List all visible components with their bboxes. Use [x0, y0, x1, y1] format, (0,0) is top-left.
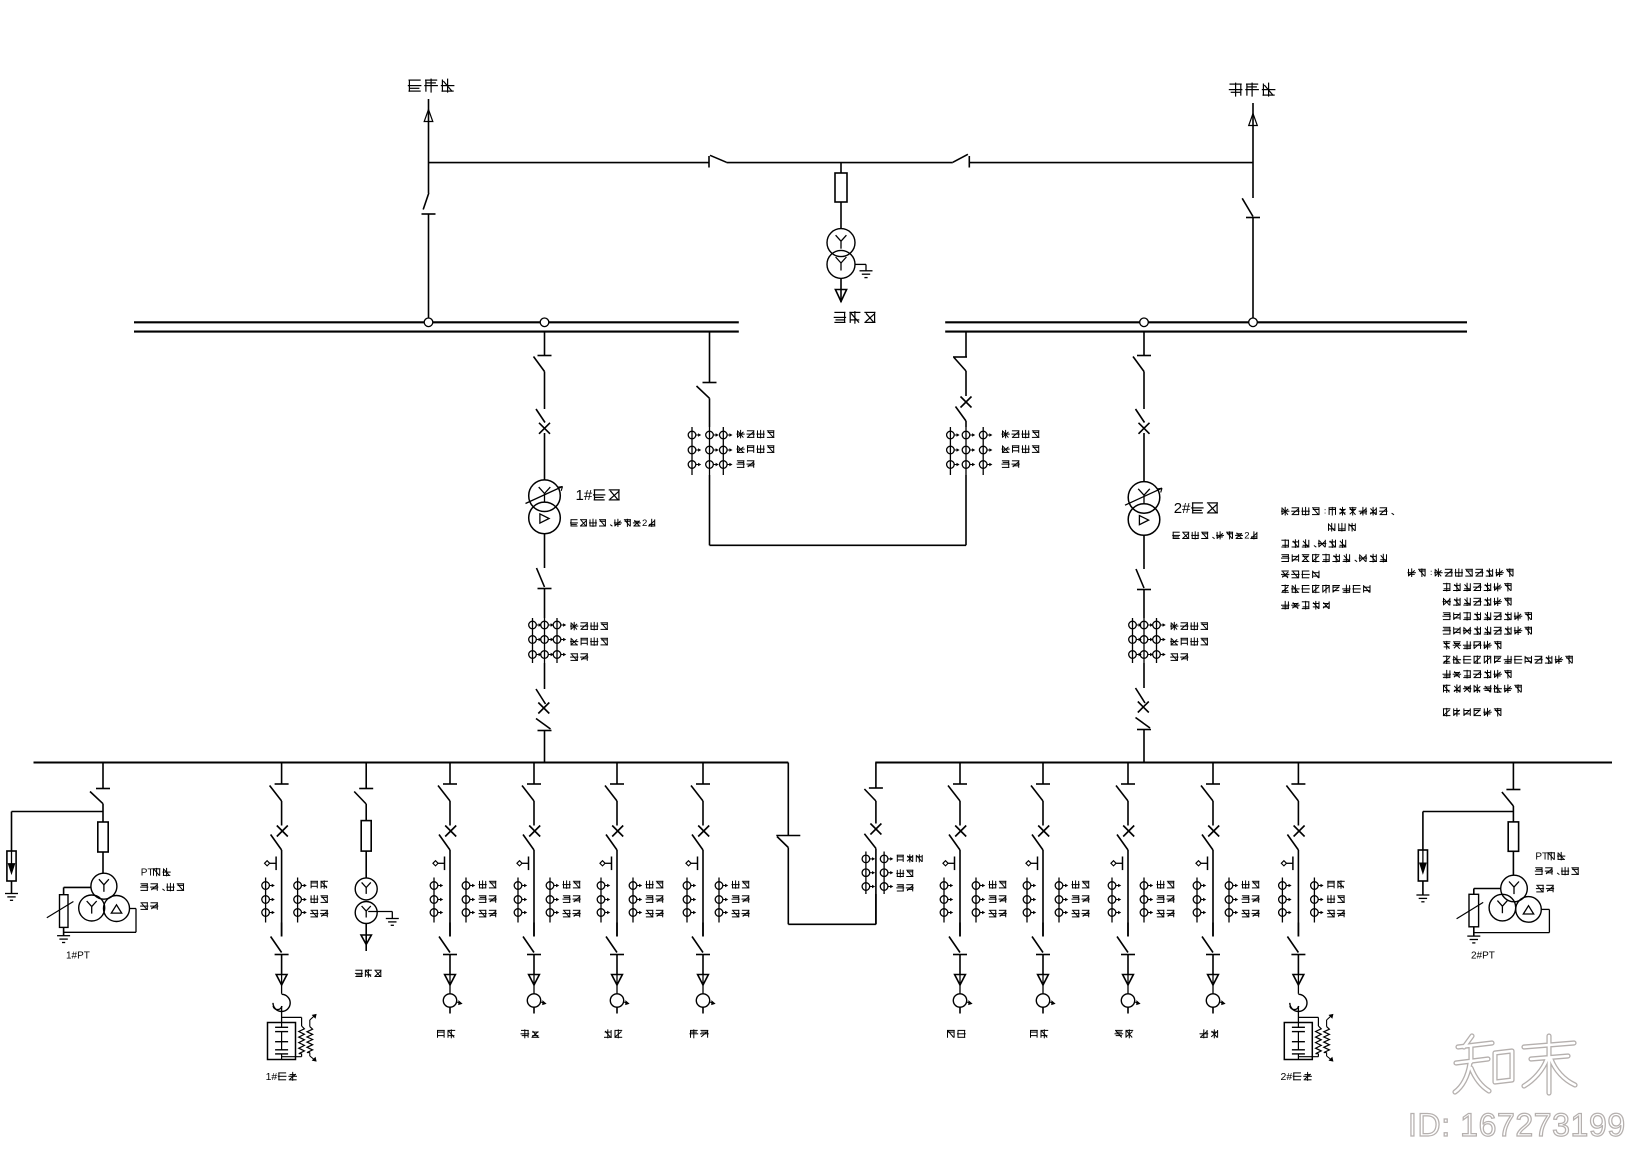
wire bus to feeder 3	[616, 763, 618, 785]
text protection note line 3	[1281, 539, 1346, 548]
handcart contact feeder 2	[517, 857, 529, 871]
capacitor bank box cap2	[1284, 1023, 1312, 1060]
CT group feeder cap2 column A	[1279, 878, 1291, 923]
ground arrester PT1	[5, 894, 18, 901]
wire feeder 8 a	[1212, 801, 1214, 826]
wire T1 f	[544, 731, 546, 763]
wire fuse to PT1	[102, 852, 104, 873]
wire feeder cap2 a	[1297, 801, 1299, 826]
label CT feeder 6 row2	[1072, 895, 1090, 902]
station transformer winding 2	[827, 250, 855, 278]
wire bridge left a	[709, 398, 711, 427]
CT group bridge-left column B	[706, 427, 718, 475]
wire feeder 8 e	[1212, 1007, 1214, 1013]
cable terminal feeder 1	[443, 994, 462, 1007]
wire bridge horizontal	[710, 544, 967, 546]
label CT feeder 8 row1	[1242, 880, 1260, 888]
CT group T1 column A	[529, 618, 541, 663]
wire feeder 3 d	[616, 955, 618, 975]
wire bus tie bottom	[788, 923, 876, 925]
label CT feeder 4 row3	[732, 910, 750, 917]
label feeder 2	[521, 1029, 540, 1038]
cable terminal feeder 8	[1206, 994, 1225, 1007]
handcart contact feeder 8	[1196, 857, 1208, 871]
label CT bridge-left row2	[737, 445, 775, 453]
label CT feeder 8 row3	[1242, 910, 1260, 917]
capacitor elements cap1	[275, 1023, 288, 1060]
label CT feeder cap2 row1	[1327, 880, 1344, 888]
node transformer 1 on bus I	[540, 318, 549, 327]
wire T1 d	[544, 589, 546, 619]
breaker feeder 3	[606, 826, 623, 851]
wire T2 e	[1143, 663, 1145, 688]
disconnector feeder 3 upper	[605, 784, 624, 801]
label CT bridge-right row3	[1002, 460, 1020, 467]
label CT feeder 5 row2	[989, 895, 1007, 902]
label feeder 4	[690, 1029, 709, 1038]
wire feeder 5 d	[959, 955, 961, 975]
label CT feeder 7 row1	[1157, 880, 1175, 888]
CT group feeder cap2 column B	[1311, 878, 1323, 923]
wire station tx2 neutral	[368, 912, 392, 919]
wire feeder 7 a	[1127, 801, 1129, 826]
incoming line 2 arrow	[1249, 103, 1258, 126]
CT group bus tie column A	[862, 852, 874, 895]
CT group feeder 4 column A	[683, 878, 695, 923]
ground station transformer	[860, 271, 873, 278]
arrester PT2 line side	[1418, 850, 1427, 881]
disconnector feeder 5 upper	[948, 784, 967, 801]
text PT2 note line3	[1536, 885, 1554, 892]
wire feeder 5 b	[959, 850, 961, 937]
plug contact feeder 2	[529, 975, 540, 994]
breaker bridge right	[956, 397, 972, 422]
wire bus I to disconnector T1	[544, 332, 546, 356]
node incoming 2 on bus II	[1249, 318, 1258, 327]
wire feeder 3 a	[616, 801, 618, 826]
wire station tx2 a	[365, 804, 367, 821]
wire top tie middle segment	[727, 162, 953, 164]
disconnector feeder 4 lower	[692, 937, 710, 955]
disconnector feeder 7 upper	[1116, 784, 1135, 801]
wire T2 a	[1143, 372, 1145, 410]
incoming line 1 arrow	[424, 99, 433, 122]
CT group feeder 3 column B	[629, 878, 641, 923]
label CT feeder 8 row2	[1242, 895, 1260, 902]
label capacitor bank 2	[1281, 1071, 1312, 1083]
label CT bus tie row2	[896, 869, 913, 877]
cable terminal feeder 4	[696, 994, 715, 1007]
disconnector station tx2	[354, 789, 373, 805]
CT group feeder cap1 column B	[294, 878, 306, 923]
wire bus to feeder 4	[702, 763, 704, 785]
wire feeder 1 b	[449, 850, 451, 937]
label CT feeder 1 row3	[479, 910, 497, 917]
label feeder 5	[947, 1030, 966, 1038]
wire feeder 1 c	[449, 923, 451, 937]
breaker feeder 7	[1117, 826, 1134, 851]
text signal note line 10	[1443, 708, 1502, 717]
wire capbank cap1 to box	[281, 1006, 283, 1023]
disconnector T1 high side	[534, 356, 552, 372]
transformer T1 winding HV	[526, 480, 563, 512]
plug contact feeder cap2	[1293, 975, 1304, 994]
wire T2 f	[1143, 730, 1145, 763]
ground station tx2	[386, 919, 399, 926]
label CT T2 row1	[1170, 622, 1208, 630]
disconnector bus tie right	[864, 788, 883, 801]
ground PT1	[57, 936, 70, 943]
label CT bridge-right row1	[1002, 430, 1040, 438]
wire feeder 6 d	[1042, 955, 1044, 975]
PT1 winding bottom-right	[104, 896, 130, 922]
CT group T2 column C	[1153, 618, 1165, 663]
CT group feeder 6 column B	[1055, 878, 1067, 923]
label CT bridge-right row2	[1002, 445, 1040, 453]
capacitor elements cap2	[1292, 1023, 1305, 1060]
disconnector feeder 8 lower	[1202, 937, 1220, 955]
wire bus to feeder cap1	[281, 763, 283, 785]
disconnector PT2	[1502, 790, 1521, 807]
svg-text:PT: PT	[141, 868, 154, 879]
wire PT2 damper link	[1474, 889, 1501, 895]
handcart contact feeder cap1	[265, 857, 277, 871]
arrow station tx2	[361, 935, 371, 945]
wire capbank cap2 to discharge coil	[1298, 1017, 1318, 1026]
terminal discharge coil cap2 top	[1327, 1014, 1333, 1026]
wire incoming line 1 upper	[428, 122, 430, 193]
wire T1 a	[544, 372, 546, 410]
CT group feeder 6 column A	[1023, 878, 1035, 923]
label feeder 3	[604, 1029, 622, 1038]
CT group bridge-right column B	[962, 427, 974, 475]
disconnector incoming line 1	[422, 193, 436, 214]
plug contact feeder 1	[445, 975, 456, 994]
wire feeder 2 a	[533, 801, 535, 826]
disconnector bridge left	[697, 383, 717, 399]
CT group feeder 7 column A	[1108, 878, 1120, 923]
station tx2 winding 1	[355, 878, 377, 900]
wire station transformer tap	[840, 163, 842, 173]
wire top tie left segment	[429, 162, 710, 164]
wire bus tie right c	[875, 894, 877, 924]
CT group bridge-left column A	[688, 427, 700, 475]
discharge coil cap1 winding 2	[307, 1027, 313, 1053]
wire bus to PT1 disconnector	[102, 763, 104, 789]
label CT feeder 5 row3	[989, 910, 1007, 917]
CT group feeder 7 column B	[1140, 878, 1152, 923]
breaker feeder cap1	[271, 826, 288, 851]
text PT1 note line3	[140, 902, 158, 909]
label CT T1 row2	[570, 637, 608, 645]
wire bus tie right a	[875, 801, 877, 824]
text PT1 note line1	[141, 868, 171, 879]
wire feeder 1 a	[449, 801, 451, 826]
wire T1 c	[544, 534, 546, 568]
terminal discharge coil cap2 bottom	[1327, 1053, 1333, 1062]
terminal discharge coil cap1 bottom	[310, 1053, 316, 1062]
label capacitor bank 1	[266, 1071, 297, 1083]
wire feeder cap1 b	[281, 850, 283, 937]
transformer T2 winding HV	[1125, 482, 1162, 514]
wire fuse to PT2	[1512, 851, 1514, 875]
wire feeder 5 c	[959, 923, 961, 937]
disconnector bridge right	[953, 357, 967, 371]
station transformer winding 1	[827, 229, 855, 257]
wire PT1 junction to arrester	[12, 804, 104, 851]
wire bus to feeder 5	[959, 763, 961, 785]
wire feeder 1 d	[449, 955, 451, 975]
disconnector feeder 1 upper	[438, 784, 457, 801]
terminal discharge coil cap1 top	[310, 1014, 316, 1026]
plug contact feeder 7	[1123, 975, 1134, 994]
fuse PT2	[1508, 822, 1518, 851]
wire feeder 4 d	[702, 955, 704, 975]
svg-text:1#: 1#	[266, 1071, 278, 1083]
disconnector T2 low side	[1136, 569, 1151, 590]
wire feeder 3 c	[616, 923, 618, 937]
disconnector PT1	[90, 789, 110, 804]
wire feeder 6 c	[1042, 923, 1044, 937]
wire bus tie left down	[787, 848, 789, 925]
handcart contact feeder 3	[600, 857, 612, 871]
switch top tie right	[953, 154, 970, 167]
wire feeder 4 a	[702, 801, 704, 826]
wire feeder 3 b	[616, 850, 618, 937]
wire station tx2 d	[365, 945, 367, 952]
CT group T1 column B	[541, 618, 553, 663]
breaker T1 low side	[536, 689, 552, 731]
wire T2 d	[1143, 590, 1145, 619]
breaker feeder 5	[949, 826, 966, 851]
wire top tie right segment	[969, 162, 1253, 164]
wire bus II to disconnector T2	[1143, 332, 1145, 356]
label transformer 1 panels	[570, 518, 655, 529]
disconnector feeder 6 lower	[1032, 937, 1050, 955]
label CT T2 row3	[1170, 653, 1188, 660]
ground arrester PT2	[1416, 895, 1429, 902]
handcart contact feeder 7	[1111, 857, 1123, 871]
watermark logo zhimo	[1455, 1036, 1575, 1093]
breaker T2 low side	[1136, 688, 1152, 730]
label transformer 1	[576, 487, 620, 504]
PT2 winding bottom-right	[1516, 897, 1542, 923]
wire PT2 junction to arrester	[1423, 806, 1514, 850]
wire feeder 4 c	[702, 923, 704, 937]
wire arrester PT2 to ground	[1422, 881, 1424, 895]
bus lower section I	[34, 761, 789, 763]
CT group feeder 5 column A	[940, 878, 952, 923]
wire bus to feeder 1	[449, 763, 451, 785]
plug contact feeder 4	[698, 975, 709, 994]
CT group T2 column B	[1140, 618, 1152, 663]
text signal note line 8	[1443, 670, 1512, 679]
CT group feeder 1 column A	[430, 878, 442, 923]
label CT feeder cap1 row3	[310, 910, 328, 917]
wire T1 b	[544, 433, 546, 480]
wire bus to feeder 8	[1212, 763, 1214, 785]
discharge coil cap2 winding 2	[1324, 1027, 1330, 1053]
wire bus to feeder 7	[1127, 763, 1129, 785]
wire bridge right a	[965, 371, 967, 396]
capacitor bank box cap1	[268, 1023, 296, 1060]
text PT2 note line2	[1535, 867, 1579, 875]
plug contact feeder 6	[1038, 975, 1049, 994]
wire fuse to station transformer	[840, 202, 842, 229]
text protection note line 7	[1281, 601, 1329, 610]
breaker feeder cap2	[1287, 826, 1304, 851]
CT group feeder cap1 column A	[262, 878, 274, 923]
wire feeder 8 c	[1212, 923, 1214, 937]
cable terminal feeder 6	[1036, 994, 1055, 1007]
disconnector feeder 1 lower	[439, 937, 457, 955]
wire feeder 2 e	[533, 1007, 535, 1013]
disconnector feeder 8 upper	[1201, 784, 1220, 801]
wire station tx2 b	[365, 851, 367, 878]
wire PT2 to fuse	[1512, 812, 1514, 822]
wire feeder cap2 d	[1297, 955, 1299, 975]
breaker bus tie	[864, 824, 881, 849]
disconnector feeder cap2 lower	[1287, 937, 1305, 955]
text signal note line 7	[1443, 655, 1573, 664]
disconnector feeder cap1 upper	[270, 784, 289, 801]
disconnector feeder 7 lower	[1117, 937, 1135, 955]
svg-text:2: 2	[642, 518, 647, 529]
wire feeder 7 d	[1127, 955, 1129, 975]
disconnector feeder 6 upper	[1031, 784, 1050, 801]
wire station transformer neutral	[855, 264, 866, 270]
wire incoming line 2 upper	[1252, 126, 1254, 198]
breaker feeder 6	[1032, 826, 1049, 851]
wire feeder 4 e	[702, 1007, 704, 1013]
text PT1 note line2	[140, 883, 184, 891]
label incoming line 2 (meitian line)	[1229, 83, 1276, 97]
bus II upper (10kV section II)	[945, 322, 1467, 331]
wire T2 b	[1143, 433, 1145, 482]
arrow station transformer secondary	[835, 290, 846, 302]
wire bus to feeder 6	[1042, 763, 1044, 785]
wire bus tie right b	[875, 848, 877, 924]
text signal note line 4	[1443, 612, 1533, 621]
wire bus tie left drop	[787, 763, 789, 836]
CT group feeder 8 column B	[1225, 878, 1237, 923]
breaker feeder 2	[523, 826, 540, 851]
text signal note line 2	[1443, 583, 1512, 592]
svg-text:PT: PT	[1535, 852, 1548, 863]
wire feeder cap2 c	[1297, 923, 1299, 937]
handcart contact feeder cap2	[1281, 857, 1293, 871]
label station transformer	[834, 311, 876, 324]
reactor capbank cap1	[273, 994, 290, 1011]
svg-text:2: 2	[1244, 531, 1249, 542]
damping resistor PT2	[1457, 894, 1484, 927]
disconnector feeder 3 lower	[606, 937, 624, 955]
wire bus to feeder 2	[533, 763, 535, 785]
fuse station transformer	[835, 173, 847, 202]
transformer T2 winding LV	[1128, 504, 1160, 536]
label CT feeder cap2 row2	[1327, 895, 1345, 903]
wire feeder 7 c	[1127, 923, 1129, 937]
label CT T1 row3	[570, 653, 588, 660]
cable terminal feeder 2	[527, 994, 546, 1007]
wire feeder 5 a	[959, 801, 961, 826]
text protection note line 6	[1281, 585, 1370, 594]
label CT T1 row1	[570, 622, 608, 630]
wire feeder 6 e	[1042, 1007, 1044, 1013]
wire feeder 4 b	[702, 850, 704, 937]
breaker feeder 4	[692, 826, 709, 851]
cable terminal feeder 3	[610, 994, 629, 1007]
label feeder 1	[437, 1029, 455, 1038]
wire feeder 7 e	[1127, 1007, 1129, 1013]
CT group bus tie column B	[880, 852, 892, 895]
wire capbank cap1 to discharge coil	[282, 1017, 302, 1026]
disconnector feeder cap1 lower	[271, 937, 289, 955]
wire feeder 2 b	[533, 850, 535, 937]
wire bridge left b	[709, 475, 711, 545]
disconnector feeder 4 upper	[691, 784, 710, 801]
wire feeder 8 b	[1212, 850, 1214, 937]
label CT feeder 3 row3	[646, 910, 664, 917]
wire station tx2 c	[365, 924, 367, 945]
label feeder 8	[1200, 1029, 1218, 1038]
wire feeder cap1 c	[281, 923, 283, 937]
label CT feeder 3 row2	[646, 895, 664, 902]
label CT feeder 4 row1	[732, 880, 750, 888]
wire station transformer secondary	[840, 278, 842, 302]
bus lower section II	[875, 761, 1612, 763]
text signal note line 3	[1443, 597, 1512, 606]
wire bus tie right drop	[875, 763, 877, 789]
cable terminal feeder 5	[953, 994, 972, 1007]
wire T2 c	[1143, 535, 1145, 569]
label CT feeder 7 row2	[1157, 895, 1175, 902]
wire capbank cap2 to box	[1297, 1006, 1299, 1023]
wire PT1 damper link	[64, 887, 91, 894]
label CT feeder cap1 row1	[311, 880, 328, 888]
station tx2 winding 2	[355, 902, 377, 924]
CT group bridge-right column A	[947, 427, 959, 475]
text protection note line 4	[1281, 554, 1387, 563]
node incoming 1 on bus I	[424, 318, 433, 327]
disconnector bus tie left	[776, 836, 800, 848]
text signal note line 5	[1443, 626, 1533, 635]
CT group T1 column C	[553, 618, 565, 663]
text PT2 note line1	[1535, 852, 1565, 863]
label CT feeder 2 row1	[563, 880, 581, 888]
node transformer 2 on bus II	[1140, 318, 1149, 327]
wire incoming line 2 lower	[1252, 218, 1254, 323]
fuse PT1	[98, 822, 108, 852]
label CT bridge-left row3	[737, 460, 755, 467]
label feeder 7	[1115, 1029, 1134, 1038]
CT group feeder 2 column B	[546, 878, 558, 923]
wire arrester PT1 to ground	[11, 881, 13, 894]
wire incoming line 1 lower	[428, 214, 430, 322]
wire feeder 5 e	[959, 1007, 961, 1013]
text signal note line 1	[1408, 568, 1514, 577]
wire feeder cap1 d	[281, 955, 283, 975]
wire feeder 2 d	[533, 955, 535, 975]
wire feeder 7 b	[1127, 850, 1129, 937]
breaker T2 high side	[1136, 409, 1150, 434]
label CT feeder cap1 row2	[310, 895, 328, 903]
label PT2	[1471, 951, 1495, 962]
label CT feeder 1 row1	[479, 880, 497, 888]
plug contact feeder 8	[1208, 975, 1219, 994]
plug contact feeder cap1	[276, 975, 287, 994]
wire feeder 2 c	[533, 923, 535, 937]
